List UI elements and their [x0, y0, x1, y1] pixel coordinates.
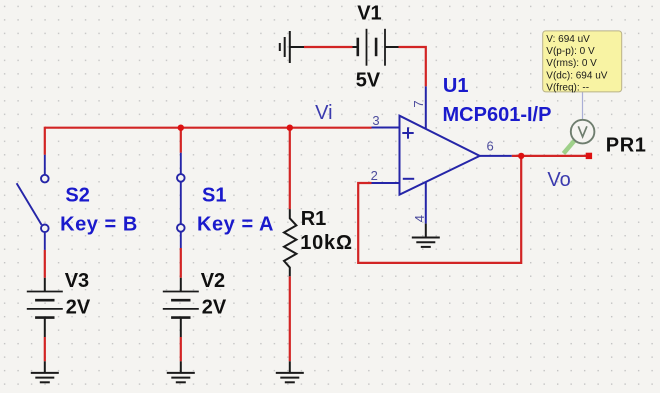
- op-amp minus symbol: [403, 178, 414, 180]
- ground top-left (rotated): [280, 31, 304, 63]
- svg-text:V: 694 uV: V: 694 uV: [546, 34, 590, 45]
- wire feedback loop: [358, 156, 521, 263]
- svg-text:Vo: Vo: [547, 169, 570, 191]
- probe PR1 voltmeter circle: [571, 120, 595, 144]
- probe PR1 green pointer stub: [564, 140, 575, 153]
- op-amp plus symbol: [402, 127, 413, 138]
- svg-text:2V: 2V: [66, 297, 91, 319]
- svg-text:V(freq): --: V(freq): --: [546, 83, 589, 94]
- svg-text:V1: V1: [357, 3, 381, 25]
- wire R1 bottom to ground: [289, 276, 291, 361]
- wire V3 to ground: [44, 337, 46, 361]
- probe tooltip box: [543, 31, 622, 94]
- svg-text:V(dc): 694 uV: V(dc): 694 uV: [546, 70, 607, 81]
- node junction dot R1: [287, 125, 293, 131]
- wire output pin6 to probe: [512, 155, 588, 157]
- svg-text:V2: V2: [201, 270, 225, 292]
- wire S2 branch vertical (red part): [44, 127, 46, 155]
- svg-text:2: 2: [371, 168, 378, 183]
- probe terminal square PR1: [586, 153, 592, 159]
- node junction dot output Vo: [518, 153, 524, 159]
- svg-text:MCP601-I/P: MCP601-I/P: [443, 104, 552, 126]
- ground under op-amp pin4: [412, 224, 440, 247]
- ground under V3: [31, 361, 59, 382]
- ground under V2: [167, 361, 195, 382]
- battery V1: [353, 29, 399, 66]
- wire V2 to ground: [180, 337, 182, 361]
- op-amp U1: [372, 86, 512, 223]
- svg-text:4: 4: [412, 215, 427, 222]
- probe PR1 tooltip connector: [582, 92, 584, 120]
- wire main horizontal node Vi: [45, 127, 372, 129]
- battery V3: [27, 278, 63, 337]
- svg-text:V(p-p): 0 V: V(p-p): 0 V: [546, 46, 595, 57]
- wire S1 branch vertical (red part): [180, 128, 182, 153]
- node junction dot S1: [178, 125, 184, 131]
- svg-text:R1: R1: [301, 208, 327, 230]
- wire S2 to V3: [44, 250, 46, 278]
- probe PR1 V letter: [578, 126, 587, 137]
- switch S2 (open): [17, 155, 49, 250]
- wire ground to V1: [304, 46, 353, 48]
- svg-text:V3: V3: [65, 270, 89, 292]
- battery V2: [163, 278, 199, 337]
- ground under R1: [276, 361, 304, 382]
- svg-text:V(rms): 0 V: V(rms): 0 V: [546, 58, 597, 69]
- svg-text:S2: S2: [65, 185, 89, 207]
- svg-text:3: 3: [372, 113, 379, 128]
- svg-text:5V: 5V: [356, 70, 381, 92]
- svg-text:Key = A: Key = A: [197, 214, 274, 236]
- svg-text:PR1: PR1: [606, 134, 647, 156]
- wire R1 branch vertical top (red part): [289, 128, 291, 209]
- resistor R1: [284, 209, 296, 276]
- switch S1 (closed): [177, 153, 185, 248]
- svg-text:U1: U1: [443, 75, 469, 97]
- svg-text:10kΩ: 10kΩ: [300, 232, 353, 254]
- svg-text:Key = B: Key = B: [60, 214, 138, 236]
- svg-text:7: 7: [411, 100, 426, 107]
- svg-text:2V: 2V: [202, 297, 227, 319]
- svg-text:6: 6: [487, 139, 494, 154]
- wire V1 to opamp pin7: [399, 47, 426, 86]
- wire S1 to V2: [180, 248, 182, 278]
- svg-text:Vi: Vi: [315, 102, 332, 124]
- svg-text:S1: S1: [202, 185, 226, 207]
